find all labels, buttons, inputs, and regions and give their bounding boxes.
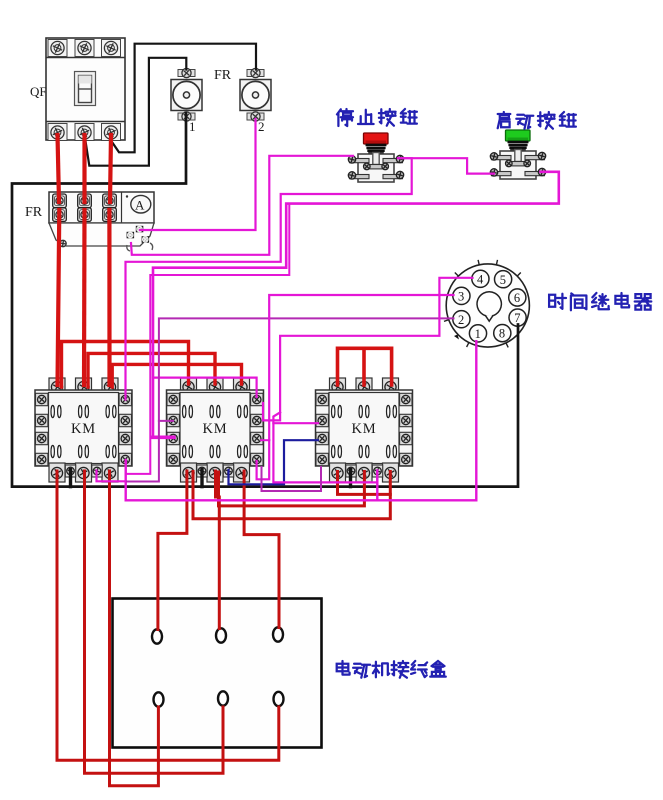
wire: KM1 bottom3 to motor U2 (red) (110, 471, 159, 786)
motor terminal bottom 1 (154, 692, 164, 706)
motor terminal bottom 3 (274, 692, 284, 706)
wire: KM2 bottom1 to motor U1 (red) (158, 471, 187, 630)
wire: KM3 coil A1 stub to node (magenta) (376, 471, 378, 501)
wire: relay pin 2 to KM2 left2 (magenta) (159, 318, 454, 421)
fuse FU2 (240, 68, 271, 121)
wire: KM3 coil A2 stub to bus (black) (349, 470, 352, 487)
wire: KM1 top3 link to KM2 top3 (red) (112, 364, 241, 387)
svg-text:2: 2 (458, 313, 464, 327)
wire: KM2 bottom3 to motor W1 (red) (244, 471, 279, 628)
FR auxiliary contacts (127, 226, 153, 251)
wire: QF middle pole to fuse 1 (black) (86, 58, 187, 166)
wire: KM2 bottom2 to motor V1 (red) (216, 471, 220, 629)
label time relay text (shi jian ji dian qi) (549, 293, 651, 310)
svg-text:KM: KM (71, 421, 96, 437)
wire: KM1 top2 link to KM2 top2 (red) (88, 353, 215, 387)
time relay KT socket (444, 260, 529, 348)
wire: FR out 2 to KM1 top 2 (red) (82, 210, 87, 385)
motor terminal box (113, 599, 322, 748)
svg-text:4: 4 (477, 272, 484, 286)
relay pin 2 (453, 311, 470, 328)
svg-text:6: 6 (514, 291, 520, 305)
wire: KM2 coil A1 to KM3 left 2 (blue) (229, 440, 319, 484)
svg-text:KM: KM (352, 421, 377, 437)
wire: fuse 2 to FR aux in (magenta) (140, 119, 256, 230)
motor terminal top 3 (273, 627, 283, 641)
circuit breaker QF (46, 38, 125, 141)
wire: KM1 bottom1 to motor W2 (red) (57, 471, 279, 760)
wire: KM2 coil A2 stub to bus (black) (200, 470, 203, 487)
label start button text (qi dong an niu) (498, 112, 576, 129)
motor terminal top 2 (216, 628, 226, 642)
wire: start button right to KM2 left3 (magenta) (153, 172, 559, 438)
wire: KM1 top1 link to KM2 top1 (red) (62, 342, 189, 388)
wire: start node second branch to KM1 aux bottom (magenta) (126, 204, 290, 474)
relay pin 6 (509, 289, 526, 306)
fuse FU1 (171, 68, 202, 121)
wire: QF L2 out to FR 2 (red) (82, 135, 86, 202)
wire: relay pin 4 to KM3 left1 and coil A1 (magenta) (263, 278, 473, 421)
wire: KM3 star bridge on top terminals (red) (338, 348, 392, 385)
relay pin 7 (509, 309, 526, 326)
relay pin 4 (472, 270, 489, 287)
wire: FR aux out to stop button left (magenta) (131, 156, 353, 255)
wire: relay pin 3 to KM2 aux bottom (magenta) (257, 295, 454, 479)
wire: KM3 bottom1 star link (red) (338, 472, 391, 495)
motor terminal top 1 (152, 629, 162, 643)
thermal relay FR (49, 192, 154, 247)
svg-text:5: 5 (500, 273, 506, 287)
wire: KM1 coil A1 pigtail (magenta) (97, 471, 126, 482)
wire: FR out 1 to KM1 top 1 (red) (58, 210, 60, 385)
wire: pin2 branch down to coil node (magenta) (127, 421, 159, 482)
relay pin 5 (495, 271, 512, 288)
label motor box text (dian dong ji jie xian he) (337, 661, 446, 678)
wire: KM1 aux bottom to relay pin 1 (magenta) (126, 341, 477, 500)
wire: fuse 1 to neutral bus, left border, bottom bus, up to relay pin 7 (black) (12, 113, 518, 487)
wire: QF L1 out to FR 1 (red) (58, 135, 60, 202)
wire: KM2 aux top feed (magenta) (153, 378, 257, 397)
stop push button SB1 (348, 133, 403, 182)
wire: stop button right to start lower left (magenta) (398, 158, 494, 173)
wire: QF right pole to fuse 2 (black) (112, 44, 256, 153)
svg-text:A: A (135, 198, 145, 213)
wire: KM1 coil A2 stub to bus (black) (69, 470, 72, 487)
svg-text:7: 7 (514, 311, 520, 325)
wire: KM1 bottom2 to motor V2 (red) (85, 471, 224, 773)
svg-text:8: 8 (499, 327, 505, 341)
svg-text:QF: QF (30, 84, 47, 99)
svg-text:KM: KM (203, 421, 228, 437)
wire: KM2 left3 entry emphasis (magenta) (152, 435, 174, 439)
motor terminal bottom 2 (218, 691, 228, 705)
contactor KM1 (35, 378, 132, 482)
contactor KM2 (167, 378, 264, 482)
wire: FR out 3 to KM1 top 3 (red) (107, 210, 111, 385)
start push button SB2 (490, 130, 545, 179)
relay pin 3 (453, 287, 470, 304)
svg-text:2: 2 (258, 119, 265, 134)
wire: KM2 right3 to KM3 left3 (magenta) (262, 467, 322, 491)
svg-text:3: 3 (458, 290, 464, 304)
svg-text:FR: FR (214, 68, 232, 83)
svg-text:1: 1 (475, 327, 481, 341)
relay pin 1 (469, 325, 486, 342)
wire: KM2 right2 stub to pin3 riser (magenta) (261, 439, 269, 441)
wire: QF L3 out to FR 3 (red) (110, 135, 111, 202)
svg-text:FR: FR (25, 205, 43, 220)
relay pin 8 (494, 325, 511, 342)
svg-text:1: 1 (189, 119, 196, 134)
wire: stop button right down to KM1 aux top self-hold (magenta) (126, 158, 412, 399)
wire: KM2 bottom1 delta link to KM3 bottom3 (red) (193, 472, 390, 519)
contactor KM3 (316, 378, 413, 482)
label stop button text (ting zhi an niu) (337, 109, 417, 126)
wire: KM2 bottom2 delta link to KM3 bottom2 (red) (219, 472, 365, 506)
